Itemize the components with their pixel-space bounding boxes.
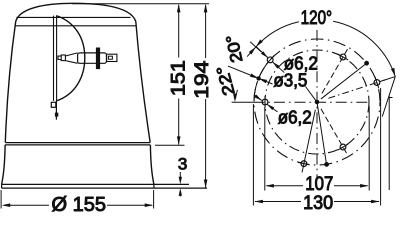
marked point on outer circle 278deg (317, 102, 329, 166)
right extension line (389, 96, 392, 191)
dome joint line lower (15, 25, 136, 27)
inner bolt circle (265, 50, 369, 154)
horizontal centerline (232, 101, 368, 103)
reflector parabola (56, 16, 85, 101)
hole 6.2 outer right (328, 77, 385, 98)
svg-text:120°: 120° (301, 8, 333, 29)
hole inner lower-right (321, 109, 348, 155)
svg-text:130: 130 (303, 193, 333, 213)
dim 155 ext lines (1, 190, 154, 209)
arc 20deg (260, 63, 268, 76)
dim text 155 (51, 194, 105, 216)
vertex dot on 158 radial (257, 77, 260, 80)
bulb H1 tip (58, 55, 65, 61)
label hole 6.2 outer (284, 54, 318, 74)
label hole 3.5 center (273, 71, 316, 101)
text 120deg (301, 8, 333, 29)
arrows at 120 arc left end (247, 39, 263, 56)
hole inner upper-right (322, 49, 348, 93)
dim text 151 (168, 60, 189, 96)
dim line 130 (254, 200, 379, 204)
dim line 107 (265, 184, 368, 188)
dim 107 ext lines (265, 106, 369, 191)
dim line 155 (2, 203, 154, 207)
arrow at 22 arc 180 end (233, 90, 237, 102)
dome joint line upper (16, 16, 130, 18)
outer bolt circle (254, 39, 380, 165)
svg-text:20°: 20° (223, 33, 246, 64)
svg-text:3: 3 (178, 155, 187, 174)
bulb cone (65, 53, 77, 63)
top extension line (72, 3, 209, 5)
center point 3.5 (315, 100, 319, 104)
arrows at 158 vertex (228, 66, 273, 84)
svg-text:Ø 155: Ø 155 (51, 194, 105, 213)
reflector clip (51, 102, 56, 107)
dim line 151 (177, 4, 181, 145)
seam extension line (155, 144, 185, 146)
svg-text:ø3,5: ø3,5 (273, 71, 307, 91)
dim text 194 (192, 60, 213, 99)
arc 120deg (256, 21, 395, 76)
dim 130 ext lines (253, 88, 380, 206)
dim text 3 (178, 155, 187, 174)
beacon dome outline (5, 3, 150, 142)
svg-text:194: 194 (192, 60, 213, 99)
text 22deg (214, 64, 239, 98)
base flange (2, 184, 207, 188)
bulb body (78, 53, 107, 63)
label hole 6.2 inner (254, 94, 312, 127)
hole 6.2 outer bottom (298, 110, 315, 173)
bulb flange (96, 48, 100, 70)
text 20deg (223, 33, 246, 64)
hole 6.2 inner left (262, 96, 268, 108)
reflector stud (55, 113, 58, 117)
reflector stem (55, 101, 57, 120)
dome-base seam (5, 143, 150, 145)
arc 22deg (254, 81, 258, 101)
base skirt (2, 145, 154, 184)
svg-text:ø6,2: ø6,2 (278, 108, 312, 128)
dim line 194 (204, 4, 208, 188)
svg-text:151: 151 (168, 60, 189, 96)
hole 6.2 outer upper-left (256, 47, 284, 73)
dim text 107 (305, 174, 333, 195)
arrow at 120 arc right end (380, 68, 395, 117)
dim text 130 (303, 193, 333, 214)
bulb connector tab (107, 54, 117, 61)
dim 3 line (179, 172, 182, 197)
marked point on outer circle 38deg (321, 61, 369, 99)
reflector rim (54, 16, 57, 101)
vertical centerline (316, 30, 318, 180)
